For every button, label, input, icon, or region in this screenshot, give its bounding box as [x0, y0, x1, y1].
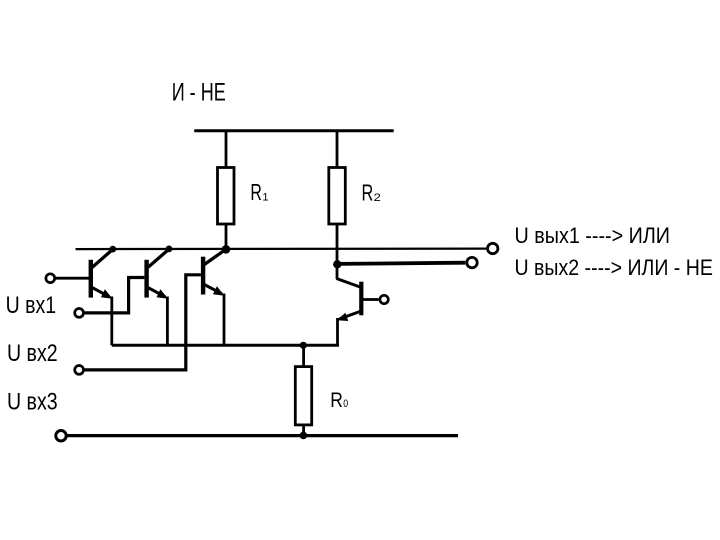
- svg-text:2: 2: [374, 192, 381, 204]
- svg-text:1: 1: [262, 191, 268, 203]
- svg-text:И - НЕ: И - НЕ: [172, 78, 226, 106]
- junction R2 / Q4 collector / U вых2: [333, 260, 341, 268]
- svg-text:U вых1 ----> ИЛИ: U вых1 ----> ИЛИ: [515, 223, 671, 248]
- terminal bottom rail: [56, 431, 66, 441]
- junction Q3 collector / R1 / bus: [222, 245, 231, 254]
- svg-text:U вх2: U вх2: [7, 340, 58, 367]
- transistor Q2: [144, 250, 168, 345]
- wire U вых2 line: [338, 263, 466, 264]
- resistor R1: [218, 131, 235, 249]
- transistor Q1: [89, 250, 113, 345]
- svg-text:R: R: [330, 389, 343, 412]
- svg-text:R: R: [362, 180, 374, 206]
- junction emitter bus / R0: [300, 342, 307, 349]
- wire common emitter bus: [112, 344, 339, 347]
- bottom rail: [68, 434, 459, 437]
- label R2: [362, 180, 381, 206]
- output terminal U вых2: [467, 257, 477, 267]
- power rail (top): [194, 129, 394, 132]
- input terminal 1: [46, 274, 55, 283]
- input terminal 2: [75, 309, 84, 318]
- junction R0 / bottom rail: [300, 432, 308, 440]
- wire collector bus (U вых1 line): [76, 248, 487, 251]
- junction Q1 collector / bus: [109, 246, 116, 253]
- svg-text:U вых2 ----> ИЛИ - НЕ: U вых2 ----> ИЛИ - НЕ: [515, 255, 713, 280]
- svg-text:R: R: [250, 179, 262, 205]
- svg-text:U вх3: U вх3: [7, 389, 58, 416]
- transistor Q3: [201, 250, 225, 345]
- transistor Q4: [337, 264, 379, 345]
- wire input 3 to Q3 base: [85, 275, 201, 370]
- svg-text:0: 0: [343, 398, 348, 410]
- junction Q2 collector / bus: [166, 246, 173, 253]
- label R0: [330, 389, 348, 412]
- input terminal 3: [75, 366, 84, 375]
- wire input 2 to Q2 base: [85, 278, 145, 313]
- svg-text:U вх1: U вх1: [6, 292, 57, 319]
- output terminal U вых1: [488, 243, 498, 253]
- label R1: [250, 179, 268, 205]
- resistor R2: [329, 131, 346, 265]
- wire input 1 to Q1 base: [56, 277, 91, 280]
- terminal Q4 base reference: [380, 295, 388, 303]
- resistor R0: [295, 345, 311, 435]
